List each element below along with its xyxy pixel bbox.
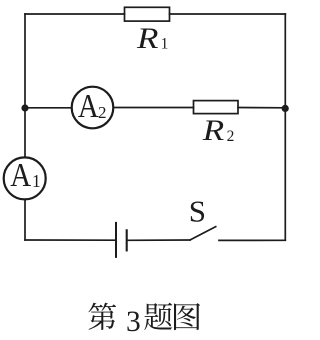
caption: character TU (figure) [174, 303, 200, 330]
battery long plate [115, 223, 117, 257]
label R1 [136, 22, 168, 55]
wire: middle branch, A2 to R2 [113, 107, 193, 109]
svg-text:S: S [189, 193, 206, 228]
wire: bottom, battery to switch pivot [128, 239, 190, 241]
svg-text:R: R [136, 22, 159, 55]
wire: top side, R1 to top-right corner [170, 13, 286, 15]
svg-text:1: 1 [32, 171, 41, 191]
wire: left side vertical upper (corner to A1) [24, 14, 26, 158]
wire: middle branch, node to A2 [25, 107, 72, 109]
resistor R1 [125, 7, 170, 21]
wire: top side, left segment to R1 [25, 13, 125, 15]
svg-text:3: 3 [126, 306, 141, 338]
svg-text:A: A [78, 87, 99, 125]
node: right junction dot [282, 105, 289, 112]
resistor R2 [194, 101, 239, 114]
caption: character TI (problem) [144, 303, 172, 330]
svg-text:1: 1 [161, 36, 169, 53]
ammeter A1 circle [4, 157, 46, 199]
node: left junction dot [21, 104, 28, 111]
switch S lever [190, 227, 216, 240]
wire: middle branch, R2 to right node [238, 107, 285, 109]
caption: character DI (first) [88, 303, 116, 330]
svg-text:A: A [10, 156, 31, 194]
wire: right side vertical [284, 14, 286, 240]
ammeter A2 circle [72, 87, 114, 129]
wire: left side vertical lower (A1 to bottom corner) [24, 200, 26, 241]
svg-text:2: 2 [227, 128, 235, 145]
label A2 (inside ammeter A2) [78, 87, 107, 125]
svg-text:R: R [202, 114, 225, 147]
battery short plate [126, 230, 128, 250]
label A1 (inside ammeter A1) [10, 156, 40, 194]
wire: bottom, left corner to battery [25, 239, 115, 241]
svg-text:2: 2 [98, 103, 107, 122]
wire: bottom, switch right contact to corner [219, 239, 285, 241]
label R2 [202, 114, 235, 147]
